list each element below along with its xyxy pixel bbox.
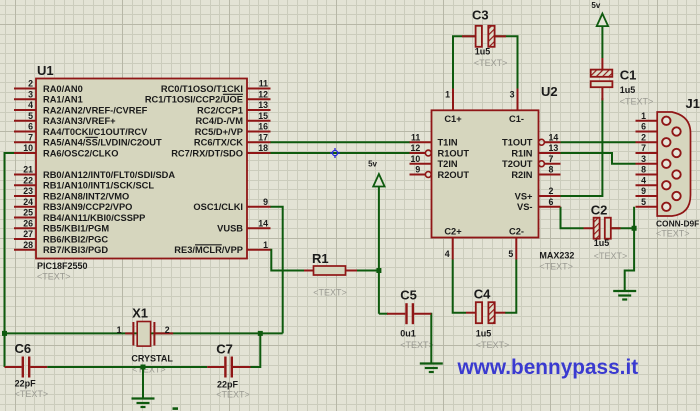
svg-text:28: 28 [23,240,33,250]
svg-text:C3: C3 [472,8,489,23]
svg-text:C4: C4 [474,287,491,302]
svg-text:22pF: 22pF [15,378,37,388]
svg-text:CRYSTAL: CRYSTAL [131,354,173,364]
svg-text:18: 18 [258,143,268,153]
svg-text:3: 3 [28,89,33,99]
svg-text:26: 26 [23,218,33,228]
svg-text:1: 1 [641,111,646,121]
svg-text:12: 12 [411,143,421,153]
svg-text:www.bennypass.it: www.bennypass.it [457,356,639,379]
svg-text:7: 7 [28,132,33,142]
svg-text:RA1/AN1: RA1/AN1 [43,95,83,105]
svg-text:8: 8 [641,165,646,175]
svg-text:22: 22 [23,175,33,185]
svg-text:T1IN: T1IN [438,138,458,148]
svg-text:<TEXT>: <TEXT> [132,364,166,374]
svg-text:5v: 5v [368,160,377,169]
svg-text:12: 12 [258,89,268,99]
svg-text:11: 11 [259,79,268,89]
svg-text:RA3/AN3/VREF+: RA3/AN3/VREF+ [43,116,116,126]
svg-text:5: 5 [508,249,513,259]
svg-text:RC1/T1OSI/CCP2/UOE: RC1/T1OSI/CCP2/UOE [145,95,243,105]
svg-text:16: 16 [258,122,268,132]
svg-text:5v: 5v [591,1,600,10]
svg-text:1u5: 1u5 [475,47,491,57]
svg-text:9: 9 [641,186,646,196]
svg-text:RB7/KBI3/PGD: RB7/KBI3/PGD [43,245,108,255]
svg-text:5: 5 [641,197,646,207]
svg-text:13: 13 [258,100,268,110]
svg-text:RC6/TX/CK: RC6/TX/CK [194,138,243,148]
svg-text:R2OUT: R2OUT [438,170,470,180]
svg-text:T2OUT: T2OUT [502,159,533,169]
svg-text:<TEXT>: <TEXT> [15,389,49,399]
svg-text:<TEXT>: <TEXT> [474,58,508,68]
svg-text:4: 4 [28,100,33,110]
svg-text:RB5/KBI1/PGM: RB5/KBI1/PGM [43,224,109,234]
svg-text:VS+: VS+ [515,191,533,201]
svg-text:14: 14 [258,218,268,228]
svg-text:U1: U1 [37,63,54,78]
svg-text:1u5: 1u5 [476,329,492,339]
svg-text:R1IN: R1IN [511,148,532,158]
svg-text:7: 7 [641,143,646,153]
svg-text:<TEXT>: <TEXT> [539,262,573,272]
svg-text:17: 17 [258,132,268,142]
svg-text:RC7/RX/DT/SDO: RC7/RX/DT/SDO [171,148,243,158]
svg-text:1u5: 1u5 [594,238,610,248]
svg-text:RC2/CCP1: RC2/CCP1 [197,105,243,115]
svg-text:C7: C7 [216,342,233,357]
svg-text:U2: U2 [541,84,558,99]
svg-text:C2: C2 [591,203,608,218]
svg-text:CONN-D9F: CONN-D9F [656,218,699,228]
svg-text:T2IN: T2IN [438,159,458,169]
svg-text:<TEXT>: <TEXT> [594,251,628,261]
svg-text:11: 11 [411,132,420,142]
svg-text:0u1: 0u1 [400,329,416,339]
svg-text:T1OUT: T1OUT [502,138,533,148]
svg-text:1u5: 1u5 [620,85,636,95]
svg-text:C5: C5 [400,288,417,303]
svg-text:C2-: C2- [509,227,524,237]
svg-text:10: 10 [411,154,421,164]
svg-text:1: 1 [263,240,268,250]
svg-text:RA0/AN0: RA0/AN0 [43,84,83,94]
svg-text:<TEXT>: <TEXT> [37,272,71,282]
svg-text:7: 7 [549,154,554,164]
svg-text:C1-: C1- [509,114,524,124]
svg-text:2: 2 [549,186,554,196]
svg-text:MAX232: MAX232 [539,251,574,261]
svg-text:9: 9 [263,197,268,207]
svg-text:8: 8 [549,165,554,175]
svg-text:4: 4 [641,175,646,185]
svg-text:3: 3 [510,90,515,100]
svg-text:RA6/OSC2/CLKO: RA6/OSC2/CLKO [43,148,118,158]
svg-text:6: 6 [28,122,33,132]
svg-text:3: 3 [641,154,646,164]
svg-text:5: 5 [28,111,33,121]
svg-text:2: 2 [165,325,170,335]
svg-text:X1: X1 [132,306,148,321]
svg-text:6: 6 [641,122,646,132]
svg-text:PIC18F2550: PIC18F2550 [37,261,88,271]
svg-text:RA5/AN4/SS/LVDIN/C2OUT: RA5/AN4/SS/LVDIN/C2OUT [43,138,162,148]
svg-text:C2+: C2+ [444,227,462,237]
svg-text:C6: C6 [15,341,32,356]
svg-text:VUSB: VUSB [217,224,243,234]
svg-text:OSC1/CLKI: OSC1/CLKI [193,202,243,212]
svg-text:15: 15 [258,111,268,121]
svg-text:RC4/D-/VM: RC4/D-/VM [195,116,243,126]
svg-text:22pF: 22pF [217,380,239,390]
svg-text:27: 27 [23,229,33,239]
svg-text:1: 1 [445,90,450,100]
svg-text:VS-: VS- [517,202,533,212]
svg-text:RB6/KBI2/PGC: RB6/KBI2/PGC [43,234,108,244]
svg-text:1: 1 [117,325,122,335]
svg-text:RA4/T0CKI/C1OUT/RCV: RA4/T0CKI/C1OUT/RCV [43,127,148,137]
svg-text:<TEXT>: <TEXT> [476,340,510,350]
svg-text:RB3/AN9/CCP2/VPO: RB3/AN9/CCP2/VPO [43,202,132,212]
svg-text:J1: J1 [686,96,700,111]
svg-text:25: 25 [23,208,33,218]
svg-text:R1: R1 [312,251,329,266]
svg-text:2: 2 [28,79,33,89]
svg-text:R2IN: R2IN [511,170,532,180]
svg-text:23: 23 [23,186,33,196]
svg-text:RB4/AN11/KBI0/CSSPP: RB4/AN11/KBI0/CSSPP [43,213,145,223]
svg-text:14: 14 [549,132,559,142]
svg-text:RB1/AN10/INT1/SCK/SCL: RB1/AN10/INT1/SCK/SCL [43,181,154,191]
svg-text:4: 4 [445,249,450,259]
svg-text:6: 6 [549,197,554,207]
svg-text:C1+: C1+ [444,114,462,124]
svg-text:<TEXT>: <TEXT> [656,229,690,239]
svg-text:<TEXT>: <TEXT> [400,340,434,350]
svg-text:10: 10 [23,143,33,153]
svg-text:C1: C1 [620,68,637,83]
svg-text:R1OUT: R1OUT [438,148,470,158]
svg-text:RE3/MCLR/VPP: RE3/MCLR/VPP [174,245,243,255]
svg-text:<TEXT>: <TEXT> [216,390,250,400]
svg-text:9: 9 [415,165,420,175]
svg-text:RA2/AN2/VREF-/CVREF: RA2/AN2/VREF-/CVREF [43,105,148,115]
svg-text:<TEXT>: <TEXT> [620,96,654,106]
svg-text:RC5/D+/VP: RC5/D+/VP [195,127,243,137]
svg-text:24: 24 [23,197,33,207]
svg-text:21: 21 [23,165,33,175]
svg-text:2: 2 [641,132,646,142]
svg-text:13: 13 [549,143,559,153]
svg-text:RB0/AN12/INT0/FLT0/SDI/SDA: RB0/AN12/INT0/FLT0/SDI/SDA [43,170,175,180]
svg-text:RB2/AN8/INT2/VMO: RB2/AN8/INT2/VMO [43,191,129,201]
svg-text:RC0/T1OSO/T1CKI: RC0/T1OSO/T1CKI [161,84,243,94]
svg-text:<TEXT>: <TEXT> [313,287,347,297]
